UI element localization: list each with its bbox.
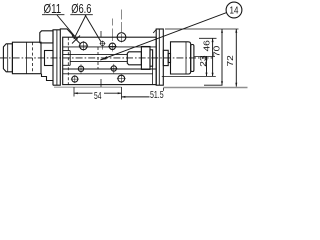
body inner line upper bbox=[63, 46, 157, 48]
top edge hole D bbox=[117, 33, 126, 42]
left solenoid tube bbox=[12, 42, 41, 73]
leader D11 bbox=[57, 15, 78, 40]
dim line 70 bbox=[221, 29, 223, 85]
bore step vertical bbox=[69, 51, 71, 66]
svg-text:70: 70 bbox=[213, 46, 222, 57]
bolt hole E bbox=[78, 66, 83, 71]
spool collar bbox=[150, 50, 153, 66]
port hole F bbox=[111, 66, 116, 71]
surface line right bbox=[163, 87, 247, 89]
bolt hole A bbox=[80, 42, 88, 50]
underline D6.6 bbox=[70, 14, 93, 16]
countersunk hole X mark bbox=[72, 36, 80, 44]
svg-text:Ø11: Ø11 bbox=[44, 3, 62, 17]
valve body bbox=[63, 37, 157, 84]
balloon 14 bbox=[226, 2, 242, 18]
bore bottom bbox=[70, 61, 127, 63]
underline D11 bbox=[42, 14, 64, 16]
left end cap bbox=[3, 44, 12, 72]
small hole C bbox=[101, 42, 105, 46]
leader 14 arrowhead bbox=[100, 56, 107, 60]
body short line lower bbox=[63, 64, 70, 66]
body inner line lower bbox=[63, 68, 157, 70]
dim line 46 bbox=[212, 38, 214, 76]
left tube seam bbox=[26, 42, 28, 73]
ext line 54/51.5 shared bbox=[121, 87, 123, 100]
right tube seam bbox=[185, 42, 187, 74]
left tube inner seam bbox=[32, 42, 34, 73]
svg-text:51.5: 51.5 bbox=[150, 89, 164, 101]
dim line 72 bbox=[235, 29, 237, 87]
svg-text:46: 46 bbox=[203, 40, 212, 51]
ext line 51.5 right bbox=[163, 88, 165, 98]
ext line 70 bottom bbox=[204, 84, 223, 86]
dim line 51.5 bbox=[122, 96, 164, 98]
right interface plate bbox=[156, 29, 163, 85]
svg-text:14: 14 bbox=[230, 5, 239, 16]
tab hole G bbox=[72, 76, 78, 82]
body short line upper bbox=[63, 50, 70, 52]
left top terminal box bbox=[40, 31, 53, 43]
svg-text:54: 54 bbox=[94, 90, 102, 102]
svg-text:72: 72 bbox=[226, 55, 235, 66]
ext line 23/46 bottom bbox=[162, 75, 216, 77]
ext line 23 top bbox=[195, 55, 216, 57]
dim line 23 bbox=[206, 56, 208, 76]
ext line 46 top bbox=[199, 37, 217, 39]
left cap inner line bbox=[7, 44, 9, 72]
dim line 54 bbox=[74, 92, 122, 94]
dim text 51.5 bbox=[150, 91, 165, 99]
right end cap bbox=[191, 45, 194, 72]
port hole B bbox=[109, 43, 115, 49]
centerline bbox=[0, 57, 213, 59]
leader D6.6 left bbox=[74, 15, 86, 39]
right plate inner line bbox=[158, 29, 160, 85]
leader 14 bbox=[100, 13, 226, 60]
spool step box bbox=[127, 52, 141, 65]
svg-text:23: 23 bbox=[199, 55, 208, 66]
tab hole H bbox=[118, 75, 125, 82]
hidden port line mid bbox=[97, 47, 99, 69]
spool main box bbox=[141, 47, 150, 70]
bore top bbox=[63, 54, 128, 56]
mounting tab top edge bbox=[63, 73, 153, 75]
right boss bbox=[163, 50, 168, 65]
svg-text:Ø6.6: Ø6.6 bbox=[71, 2, 91, 16]
right boss step bbox=[168, 54, 170, 63]
ext line 54 left bbox=[73, 87, 75, 97]
hidden hole line bottom bbox=[100, 79, 102, 87]
right solenoid tube bbox=[171, 42, 191, 74]
left plate inner line bbox=[56, 30, 58, 85]
left bottom step box bbox=[42, 74, 54, 86]
right plate chamfer bbox=[153, 30, 156, 34]
hidden line left bbox=[67, 37, 69, 84]
surface line left bbox=[54, 86, 122, 88]
tab right edge bbox=[152, 66, 154, 84]
leader D6.6 right bbox=[85, 15, 101, 42]
ext line plate top right bbox=[165, 28, 239, 30]
left boss bbox=[45, 51, 54, 66]
left interface plate bbox=[53, 29, 74, 85]
hidden hole line top bbox=[100, 31, 102, 37]
